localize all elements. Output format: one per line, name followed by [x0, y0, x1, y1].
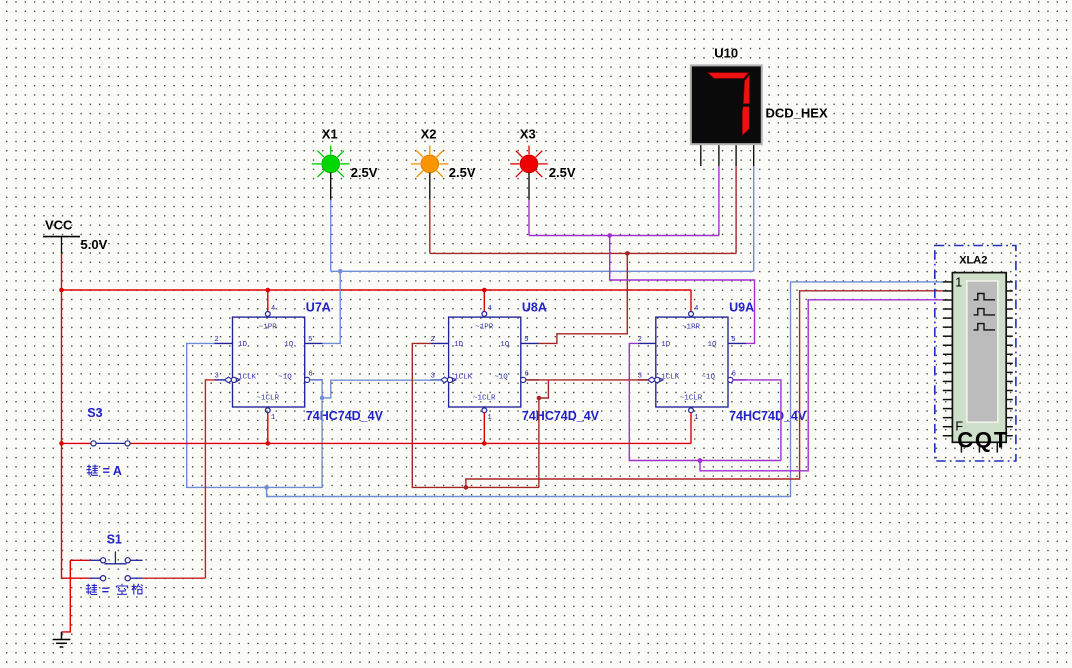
wire S3 output rail y=443.4: [130, 442, 691, 444]
U7A pin 5 1Q stub: [305, 342, 323, 344]
net S1 to U7A clock (medium red): [143, 380, 215, 578]
U9A clock chevron: [659, 378, 663, 382]
svg-text:1D: 1D: [238, 341, 248, 349]
wire display pin drop: [718, 166, 720, 236]
svg-text:1Q: 1Q: [708, 341, 718, 349]
wire from pin6 bubble down: [310, 380, 322, 398]
svg-text:6: 6: [732, 370, 736, 378]
U7A pin 3 clock bubble: [231, 377, 236, 382]
svg-text:3: 3: [431, 372, 435, 380]
svg-text:S1: S1: [107, 533, 122, 547]
node XLA2 ch1 tap junction: [264, 485, 269, 490]
XLA2 screen: [967, 281, 998, 422]
svg-text:~1Q: ~1Q: [278, 374, 292, 382]
wire loop down-left-up to 1D: [187, 343, 322, 487]
XLA2 right pin stubs: [1006, 282, 1013, 436]
node U7A ~Q junction: [320, 396, 325, 401]
node VCC at U7A pin4: [266, 288, 271, 293]
wire from U9A pin5 right-up: [610, 236, 755, 344]
svg-text:X1: X1: [322, 127, 338, 142]
net U7A ~Q loop (steel blue): [187, 282, 943, 497]
node VCC at U8A pin4: [482, 288, 487, 293]
wire U7A pin1 drop: [267, 413, 269, 444]
logic analyzer XLA2 body: [943, 255, 1013, 453]
svg-text:6: 6: [309, 370, 313, 378]
svg-text:U9A: U9A: [729, 300, 754, 314]
svg-text:~1PR: ~1PR: [682, 323, 701, 331]
wire horizontal run y=271.3: [331, 270, 754, 272]
svg-text:DCD_HEX: DCD_HEX: [766, 106, 828, 121]
svg-text:VCC: VCC: [45, 218, 73, 233]
node U9A loop junction: [698, 458, 703, 463]
wire S3 left stub: [62, 442, 92, 444]
wire jog down to loop: [539, 380, 549, 488]
node VCC junction at left rail: [59, 288, 64, 293]
svg-text:1: 1: [694, 414, 698, 422]
svg-text:1: 1: [271, 414, 275, 422]
node S3 junction on left rail: [59, 441, 64, 446]
ground symbol: [53, 632, 71, 647]
X2 black pin stub: [429, 173, 431, 200]
wire tap to XLA2 channel1: [267, 282, 943, 497]
U7A pin 3 terminal diamond: [225, 377, 233, 383]
svg-text:2.5V: 2.5V: [449, 165, 476, 180]
node XLA2 ch2 tap junction: [464, 485, 469, 490]
wire up to X1: [330, 200, 332, 271]
U7A pin 6 ~1Q bubble and stub: [305, 377, 310, 382]
U9A pin 3 terminal diamond: [648, 377, 656, 383]
svg-text:74HC74D_4V: 74HC74D_4V: [729, 409, 807, 423]
U9A pin 6 ~1Q bubble and stub: [728, 377, 733, 382]
node S3 rail at U7A pin1: [266, 441, 271, 446]
svg-text:1Q: 1Q: [500, 341, 510, 349]
node violet junction: [607, 233, 612, 238]
logic analyzer XLA2 selection border: [935, 246, 1016, 462]
net U7A Q (steel blue) : 1Q to X1 LED and display pin d: [323, 166, 754, 343]
label key=space: [86, 584, 98, 595]
svg-text:6: 6: [525, 370, 529, 378]
svg-text:U8A: U8A: [522, 300, 547, 314]
S1 top contacts: [89, 559, 100, 561]
svg-text:1Q: 1Q: [284, 341, 294, 349]
segment a lit: [708, 73, 749, 79]
svg-text:2.5V: 2.5V: [351, 165, 378, 180]
node S3 rail at U8A pin1: [482, 441, 487, 446]
svg-text:=: =: [102, 583, 109, 597]
wire tap to XLA2 channel2: [466, 291, 943, 488]
LED probe X2 (orange): [411, 127, 476, 200]
svg-text:C: C: [957, 428, 973, 453]
U8A pin 3 terminal diamond: [441, 377, 449, 383]
switch S3 key=A: [87, 406, 130, 446]
S1 ground branch vertical: [62, 560, 71, 632]
wire up to X2: [429, 200, 431, 254]
wire display pin d drop: [753, 166, 755, 271]
U8A pin 6 ~1Q bubble and stub: [521, 377, 526, 382]
net S3 key=A to clear pins (bright red): [62, 413, 692, 444]
svg-text:T: T: [994, 428, 1008, 453]
U7A pin 3 1CLK stub: [215, 379, 226, 381]
wire VCC left rail down to S1 row: [62, 290, 90, 578]
waveform glyph 1: [974, 294, 996, 300]
XLA2 left pin stubs: [943, 282, 953, 436]
wire VCC drop to U7A pin4: [267, 290, 269, 311]
svg-text:~1CLR: ~1CLR: [680, 395, 703, 403]
S1 bottom contacts: [89, 577, 100, 579]
svg-text:X3: X3: [520, 127, 536, 142]
node U8A ~Q loop junction: [537, 396, 542, 401]
svg-text:~1CLR: ~1CLR: [473, 395, 496, 403]
svg-text:1: 1: [488, 414, 492, 422]
op-amp body U9A box: [656, 317, 728, 407]
svg-text:~1Q: ~1Q: [702, 374, 716, 382]
net U9A Q (violet): 1Q to X3 LED and display pin: [529, 166, 755, 343]
wire loop left-up to 1D: [412, 343, 539, 487]
svg-text:~1PR: ~1PR: [475, 323, 494, 331]
U8A pin 1 ~1CLR: [482, 408, 487, 413]
U8A pin 4 ~1PR: [483, 310, 485, 312]
svg-text:Q: Q: [975, 428, 992, 453]
wire U9A pin1 drop: [690, 413, 692, 444]
svg-text:U10: U10: [714, 45, 738, 60]
X3 black pin stub: [528, 173, 530, 200]
wire VCC net vertical stem: [61, 253, 63, 290]
net U8A ~Q loop (dark red): [412, 291, 943, 488]
svg-text:5: 5: [731, 336, 735, 344]
LED probe X3 (red): [510, 127, 576, 200]
svg-text:74HC74D_4V: 74HC74D_4V: [306, 409, 384, 423]
S3 blade closed: [96, 442, 125, 444]
switch S1 key=space pushbutton: [62, 533, 143, 632]
svg-text:XLA2: XLA2: [959, 255, 987, 267]
X1 black pin stub: [330, 173, 332, 200]
U9A pin 3 clock bubble: [655, 377, 660, 382]
svg-text:~1PR: ~1PR: [259, 323, 278, 331]
seven segment display U10 DCD_HEX: [691, 45, 828, 166]
segment b lit: [743, 75, 749, 104]
wire horizontal run y=235.5: [529, 235, 719, 237]
svg-text:2: 2: [215, 336, 219, 344]
wire jog to CLK run: [322, 380, 441, 398]
U8A pin 5 1Q stub: [521, 342, 539, 344]
U9A pin 5 1Q stub: [728, 342, 746, 344]
wire U8A pin1 drop: [483, 413, 485, 444]
U7A clock chevron: [235, 378, 239, 382]
svg-text:2.5V: 2.5V: [549, 165, 576, 180]
U9A pin 4 ~1PR: [690, 310, 692, 312]
svg-text:1CLK: 1CLK: [238, 374, 257, 382]
op-amp body U8A box: [449, 317, 521, 407]
U9A pin 3 1CLK stub: [638, 379, 649, 381]
wire display pin drop: [735, 166, 737, 253]
U7A pin 2 1D stub: [215, 342, 233, 344]
svg-text:~1CLR: ~1CLR: [257, 395, 280, 403]
svg-text:1CLK: 1CLK: [454, 374, 473, 382]
S1 top row wire from vertical B: [70, 559, 89, 561]
svg-text:5: 5: [524, 336, 528, 344]
svg-text:2: 2: [431, 336, 435, 344]
node dark red junction: [625, 251, 630, 256]
svg-text:74HC74D_4V: 74HC74D_4V: [522, 409, 600, 423]
U8A clock chevron: [451, 378, 455, 382]
svg-text:4: 4: [488, 305, 492, 313]
U10 pin stubs: [701, 145, 754, 166]
net U9A ~Q loop (violet): [629, 300, 943, 471]
node blue junction: [338, 269, 343, 274]
LED probe X1 (green): [312, 127, 378, 200]
wire VCC corner drop to U9A pin4: [690, 290, 692, 311]
U9A pin 2 1D stub: [638, 342, 656, 344]
waveform glyph 3: [974, 324, 996, 330]
net U8A Q (dark red): 1Q to X2 LED and display pin: [430, 166, 736, 343]
svg-text:1D: 1D: [454, 341, 464, 349]
U7A pin 4 ~1PR: [267, 310, 269, 312]
wire loop bottom left and up to 1D: [629, 343, 781, 460]
wire VCC horizontal rail y=290: [62, 289, 692, 291]
U8A pin 3 clock bubble: [447, 377, 452, 382]
wire horizontal run y=253.4: [430, 252, 736, 254]
U9A pin 1 ~1CLR: [689, 408, 694, 413]
wire from U8A pin5 jog up: [539, 253, 628, 343]
segment c lit: [742, 107, 749, 136]
wire pin6 to U9A CLK run: [526, 379, 649, 381]
U8A pin 3 1CLK stub: [431, 379, 442, 381]
waveform glyph 2: [974, 309, 996, 315]
U8A pin 2 1D stub: [431, 342, 449, 344]
wire tap to XLA2 channel3: [700, 300, 943, 471]
svg-text:1: 1: [955, 275, 962, 289]
svg-text:1CLK: 1CLK: [661, 374, 680, 382]
U7A pin 1 ~1CLR: [265, 408, 270, 413]
svg-text:5.0V: 5.0V: [81, 237, 108, 252]
XLA2 bottom pins C Q T: [961, 442, 997, 452]
power VCC symbol: [43, 218, 108, 254]
svg-text:2: 2: [638, 336, 642, 344]
svg-text:= A: = A: [103, 464, 122, 478]
svg-text:~1Q: ~1Q: [494, 374, 508, 382]
label key=A: [86, 465, 98, 476]
svg-text:U7A: U7A: [306, 300, 331, 314]
svg-text:4: 4: [271, 305, 275, 313]
svg-text:5: 5: [308, 336, 312, 344]
svg-text:1D: 1D: [661, 341, 671, 349]
S1 bridge bar and actuator: [105, 563, 127, 565]
svg-text:4: 4: [694, 305, 698, 313]
op-amp body U7A box: [233, 317, 305, 407]
wire up to X3: [528, 200, 530, 236]
svg-text:X2: X2: [421, 127, 437, 142]
svg-text:S3: S3: [87, 406, 102, 420]
svg-text:3: 3: [638, 372, 642, 380]
wire pin6 right and down: [732, 380, 781, 461]
wire from U7A pin5 up: [323, 271, 341, 343]
wire VCC drop to U8A pin4: [483, 290, 485, 311]
svg-text:3: 3: [215, 372, 219, 380]
